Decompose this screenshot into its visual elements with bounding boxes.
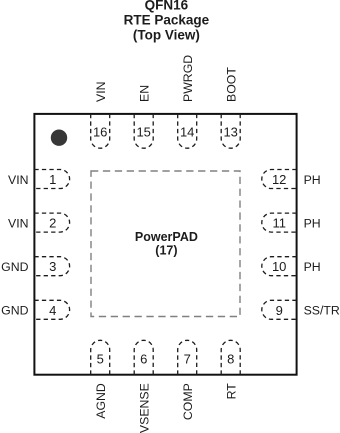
- svg-text:8: 8: [227, 351, 234, 366]
- svg-text:GND: GND: [1, 304, 28, 318]
- svg-text:6: 6: [140, 351, 147, 366]
- svg-text:QFN16: QFN16: [145, 0, 189, 12]
- svg-text:5: 5: [97, 351, 104, 366]
- svg-text:16: 16: [93, 125, 107, 140]
- pin 8 pad: [221, 340, 240, 374]
- pin 4 pad: [34, 300, 69, 319]
- pin 13 pad: [221, 114, 240, 148]
- pin 12 pad: [262, 170, 297, 189]
- pin 16 pad: [91, 114, 110, 148]
- pin 6 pad: [134, 340, 153, 374]
- svg-text:AGND: AGND: [94, 383, 108, 419]
- svg-text:SS/TR: SS/TR: [304, 304, 340, 318]
- pin 2 pad: [34, 213, 69, 232]
- svg-text:RTE Package: RTE Package: [124, 12, 210, 27]
- svg-text:7: 7: [184, 351, 191, 366]
- svg-text:15: 15: [136, 125, 150, 140]
- svg-text:PH: PH: [304, 216, 321, 230]
- pin 1 indicator dot: [51, 130, 67, 146]
- pin 5 pad: [91, 340, 110, 374]
- pin 14 pad: [178, 114, 197, 148]
- pin 7 pad: [178, 340, 197, 374]
- svg-text:13: 13: [223, 125, 237, 140]
- svg-text:14: 14: [180, 125, 194, 140]
- PowerPAD (17) thermal pad: [91, 171, 240, 317]
- svg-text:PH: PH: [304, 173, 321, 187]
- svg-text:VIN: VIN: [8, 173, 29, 187]
- svg-text:VIN: VIN: [94, 82, 108, 103]
- svg-text:PowerPAD: PowerPAD: [135, 230, 198, 244]
- svg-text:VIN: VIN: [8, 216, 29, 230]
- svg-text:4: 4: [49, 303, 56, 318]
- svg-text:9: 9: [276, 303, 283, 318]
- svg-text:(17): (17): [155, 243, 177, 257]
- svg-text:EN: EN: [138, 85, 152, 102]
- pin 11 pad: [262, 213, 297, 232]
- pin 9 pad: [262, 300, 297, 319]
- svg-text:RT: RT: [225, 383, 239, 400]
- svg-text:PH: PH: [304, 260, 321, 274]
- svg-text:VSENSE: VSENSE: [138, 383, 152, 433]
- pin 1 pad: [34, 170, 69, 189]
- svg-text:10: 10: [272, 259, 286, 274]
- svg-text:PWRGD: PWRGD: [181, 55, 195, 102]
- svg-text:3: 3: [49, 259, 56, 274]
- svg-text:GND: GND: [1, 260, 28, 274]
- pin 3 pad: [34, 257, 69, 276]
- svg-text:2: 2: [49, 216, 56, 231]
- svg-text:(Top View): (Top View): [133, 27, 200, 42]
- svg-text:COMP: COMP: [181, 383, 195, 420]
- svg-text:BOOT: BOOT: [225, 67, 239, 102]
- svg-text:1: 1: [49, 172, 56, 187]
- package body outline: [34, 114, 296, 375]
- pin 10 pad: [262, 257, 297, 276]
- svg-text:12: 12: [272, 172, 286, 187]
- pin 15 pad: [134, 114, 153, 148]
- svg-text:11: 11: [272, 216, 286, 231]
